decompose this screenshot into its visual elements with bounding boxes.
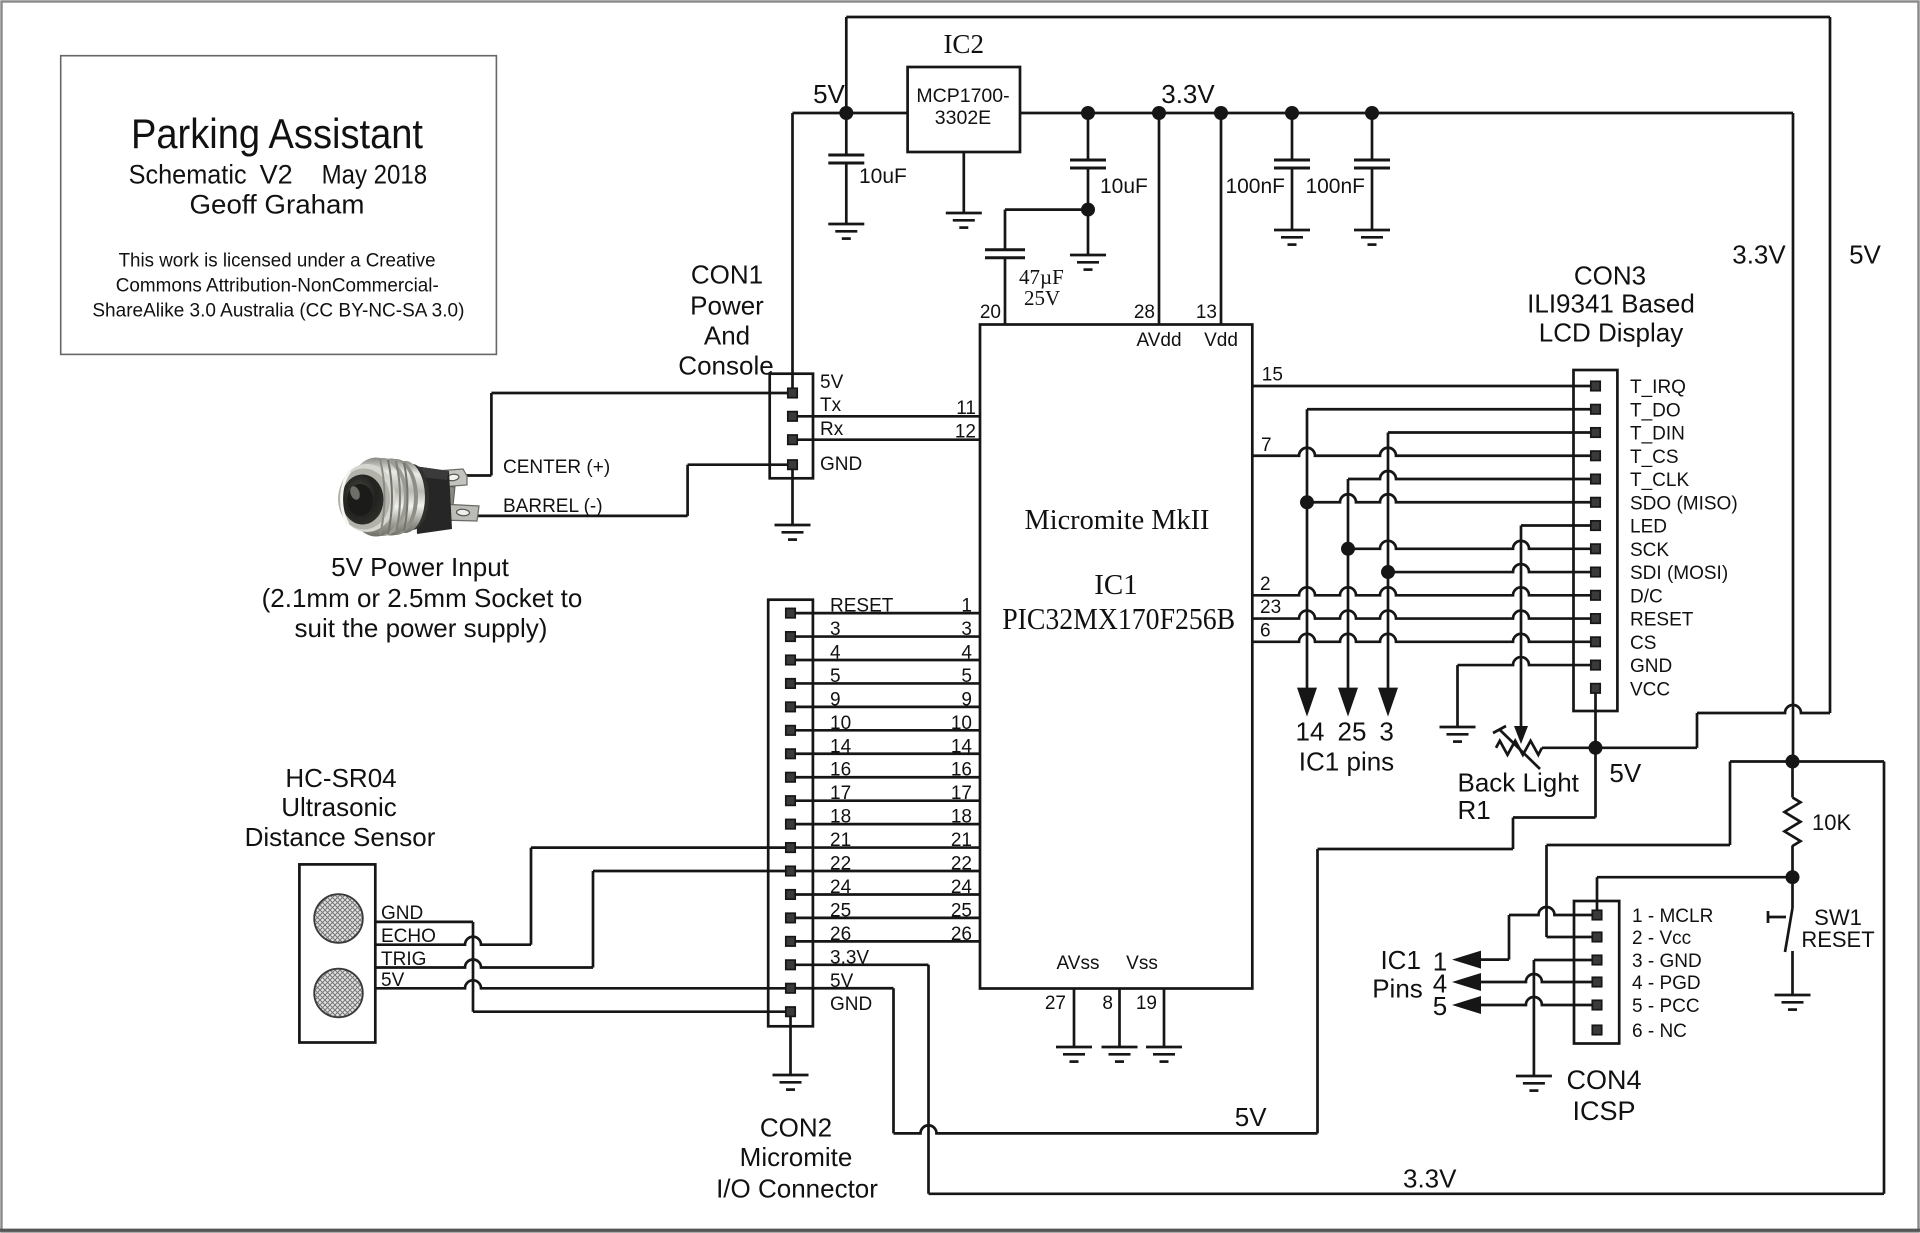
svg-text:19: 19 [1136, 993, 1157, 1014]
svg-text:15: 15 [1262, 365, 1283, 386]
svg-text:1 - MCLR: 1 - MCLR [1632, 906, 1713, 927]
svg-text:23: 23 [1260, 597, 1281, 618]
svg-text:26: 26 [951, 924, 972, 945]
svg-text:Distance Sensor: Distance Sensor [245, 822, 436, 852]
svg-text:100nF: 100nF [1225, 175, 1285, 198]
svg-text:And: And [704, 321, 750, 351]
svg-text:LCD Display: LCD Display [1539, 318, 1684, 348]
svg-text:Tx: Tx [820, 395, 842, 416]
svg-text:8: 8 [1102, 993, 1113, 1014]
svg-text:T_CLK: T_CLK [1630, 470, 1689, 491]
svg-text:24: 24 [951, 877, 973, 898]
svg-text:3.3V: 3.3V [1161, 79, 1215, 109]
svg-text:11: 11 [956, 398, 976, 419]
svg-text:3: 3 [961, 619, 972, 640]
svg-text:25: 25 [1338, 717, 1367, 747]
svg-text:I/O Connector: I/O Connector [716, 1174, 878, 1204]
svg-text:13: 13 [1196, 302, 1217, 323]
svg-text:Geoff Graham: Geoff Graham [190, 189, 365, 219]
svg-text:GND: GND [820, 454, 862, 475]
svg-text:16: 16 [951, 760, 972, 781]
svg-text:MCP1700-: MCP1700- [916, 85, 1009, 107]
svg-text:10K: 10K [1812, 810, 1851, 835]
svg-text:ILI9341 Based: ILI9341 Based [1527, 289, 1695, 319]
svg-text:5V: 5V [1849, 240, 1881, 270]
svg-text:12: 12 [955, 422, 976, 443]
svg-text:21: 21 [951, 830, 972, 851]
svg-text:6 - NC: 6 - NC [1632, 1021, 1687, 1042]
svg-text:RESET: RESET [1801, 927, 1874, 952]
svg-text:Power: Power [690, 291, 764, 321]
svg-text:Micromite: Micromite [740, 1142, 853, 1172]
svg-text:R1: R1 [1458, 795, 1491, 825]
svg-text:Rx: Rx [820, 419, 844, 440]
svg-text:CON2: CON2 [760, 1113, 832, 1143]
svg-text:Commons Attribution-NonCommerc: Commons Attribution-NonCommercial- [116, 274, 439, 296]
svg-text:GND: GND [830, 994, 872, 1015]
svg-text:ShareAlike 3.0 Australia (CC B: ShareAlike 3.0 Australia (CC BY-NC-SA 3.… [92, 299, 464, 321]
svg-text:suit the power supply): suit the power supply) [295, 613, 548, 643]
svg-text:IC1 pins: IC1 pins [1299, 747, 1394, 777]
svg-text:Micromite MkII: Micromite MkII [1025, 504, 1210, 536]
svg-text:BARREL (-): BARREL (-) [503, 496, 603, 517]
svg-text:10uF: 10uF [859, 165, 907, 188]
svg-text:CS: CS [1630, 633, 1656, 654]
svg-text:Schematic: Schematic [129, 159, 247, 189]
svg-text:25V: 25V [1024, 286, 1060, 310]
svg-text:3.3V: 3.3V [1732, 240, 1786, 270]
svg-text:1: 1 [961, 596, 972, 617]
svg-text:SDO (MISO): SDO (MISO) [1630, 493, 1738, 514]
svg-text:AVss: AVss [1057, 953, 1100, 974]
svg-text:5V: 5V [820, 372, 844, 393]
svg-text:14: 14 [951, 736, 973, 757]
svg-text:D/C: D/C [1630, 586, 1663, 607]
svg-text:Console: Console [678, 351, 773, 381]
svg-text:CON1: CON1 [691, 260, 763, 290]
svg-text:5: 5 [961, 666, 972, 687]
svg-text:ICSP: ICSP [1572, 1096, 1635, 1126]
svg-text:SDI (MOSI): SDI (MOSI) [1630, 563, 1728, 584]
svg-text:PIC32MX170F256B: PIC32MX170F256B [1002, 601, 1235, 636]
svg-text:2 - Vcc: 2 - Vcc [1632, 928, 1691, 949]
svg-text:RESET: RESET [1630, 610, 1694, 631]
svg-text:CON4: CON4 [1566, 1065, 1641, 1095]
svg-text:Pins: Pins [1372, 974, 1423, 1004]
svg-text:Back Light: Back Light [1458, 767, 1580, 797]
svg-text:SCK: SCK [1630, 540, 1669, 561]
svg-text:10: 10 [951, 713, 972, 734]
svg-text:T_DO: T_DO [1630, 400, 1681, 421]
svg-text:May 2018: May 2018 [322, 159, 428, 189]
svg-text:27: 27 [1045, 993, 1066, 1014]
svg-text:Vss: Vss [1126, 953, 1158, 974]
svg-text:14: 14 [1296, 717, 1325, 747]
svg-text:28: 28 [1134, 302, 1155, 323]
svg-text:T_CS: T_CS [1630, 447, 1679, 468]
svg-text:CON3: CON3 [1574, 261, 1646, 291]
svg-text:HC-SR04: HC-SR04 [285, 763, 396, 793]
svg-text:V2: V2 [260, 159, 293, 189]
svg-text:IC1: IC1 [1380, 945, 1420, 975]
svg-text:7: 7 [1261, 435, 1272, 456]
svg-text:5V: 5V [1235, 1102, 1267, 1132]
svg-text:LED: LED [1630, 517, 1667, 538]
svg-text:10uF: 10uF [1100, 175, 1148, 198]
svg-text:4: 4 [961, 642, 972, 663]
svg-text:3302E: 3302E [935, 107, 991, 129]
svg-text:5V: 5V [1609, 758, 1641, 788]
svg-text:9: 9 [961, 689, 972, 710]
svg-text:6: 6 [1260, 621, 1271, 642]
svg-text:5V: 5V [813, 79, 845, 109]
svg-text:(2.1mm or 2.5mm Socket to: (2.1mm or 2.5mm Socket to [262, 583, 583, 613]
svg-text:AVdd: AVdd [1136, 330, 1181, 351]
svg-text:25: 25 [951, 900, 972, 921]
svg-text:3 - GND: 3 - GND [1632, 951, 1702, 972]
svg-text:2: 2 [1260, 574, 1271, 595]
svg-text:5 - PCC: 5 - PCC [1632, 996, 1700, 1017]
svg-text:20: 20 [980, 302, 1001, 323]
svg-text:5V Power Input: 5V Power Input [331, 552, 510, 582]
svg-text:Vdd: Vdd [1204, 330, 1238, 351]
svg-text:4 - PGD: 4 - PGD [1632, 973, 1701, 994]
svg-text:100nF: 100nF [1305, 175, 1365, 198]
svg-text:Ultrasonic: Ultrasonic [281, 792, 397, 822]
svg-text:IC1: IC1 [1094, 569, 1138, 601]
svg-text:17: 17 [951, 783, 972, 804]
svg-text:GND: GND [1630, 656, 1672, 677]
svg-text:3.3V: 3.3V [1403, 1164, 1457, 1194]
svg-text:This work is licensed under a: This work is licensed under a Creative [119, 250, 436, 272]
svg-text:3: 3 [1379, 717, 1393, 747]
svg-text:IC2: IC2 [943, 29, 984, 59]
svg-text:Parking Assistant: Parking Assistant [131, 110, 423, 157]
svg-text:T_IRQ: T_IRQ [1630, 377, 1686, 398]
svg-text:VCC: VCC [1630, 679, 1670, 700]
svg-text:CENTER (+): CENTER (+) [503, 457, 610, 478]
svg-text:18: 18 [951, 807, 972, 828]
svg-text:5: 5 [1433, 991, 1447, 1021]
svg-text:22: 22 [951, 854, 972, 875]
svg-text:T_DIN: T_DIN [1630, 424, 1685, 445]
